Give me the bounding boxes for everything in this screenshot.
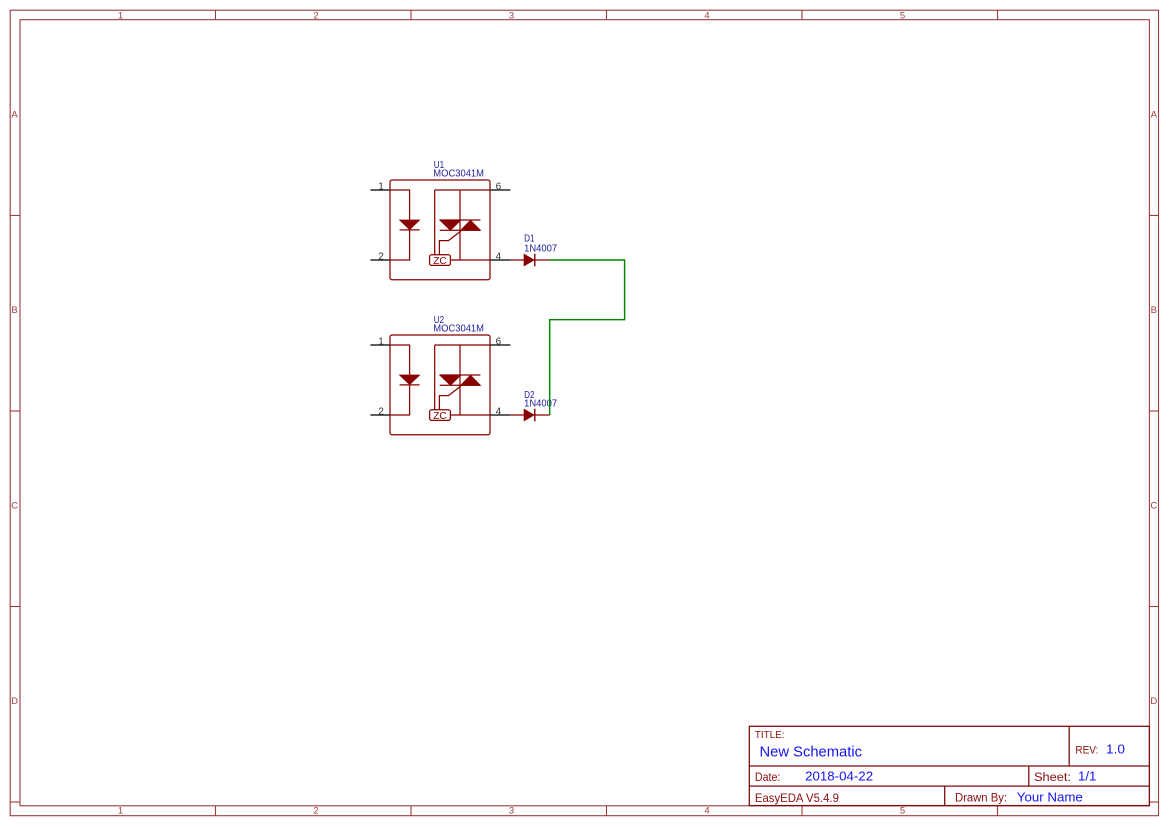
U1 triac bottom rail: [440, 229, 481, 231]
U2 gate wire: [439, 386, 461, 410]
svg-text:5: 5: [900, 10, 905, 21]
svg-text:2: 2: [313, 805, 318, 816]
U2 triac right vertical: [459, 345, 461, 415]
svg-text:2: 2: [313, 10, 318, 21]
svg-text:New Schematic: New Schematic: [760, 744, 863, 761]
U1 triac top rail: [440, 219, 481, 221]
diode D2 triangle: [524, 409, 534, 421]
svg-text:1: 1: [118, 805, 123, 816]
svg-text:3: 3: [509, 805, 514, 816]
svg-text:C: C: [11, 501, 18, 512]
svg-text:REV:: REV:: [1075, 745, 1098, 757]
svg-text:4: 4: [496, 252, 502, 263]
U2 pin4 internal wire: [450, 414, 490, 416]
U2 pin 4 stub: [490, 414, 510, 416]
svg-text:B: B: [1151, 305, 1157, 316]
diode D1 triangle: [524, 254, 534, 266]
svg-text:EasyEDA V5.4.9: EasyEDA V5.4.9: [755, 792, 839, 805]
svg-text:1N4007: 1N4007: [524, 244, 557, 255]
U1 LED anode wire: [390, 190, 410, 220]
svg-text:1: 1: [378, 337, 384, 348]
svg-text:3: 3: [509, 10, 514, 21]
svg-text:A: A: [1151, 109, 1158, 120]
U2 pin6 internal wire: [435, 344, 490, 346]
svg-text:MOC3041M: MOC3041M: [433, 324, 484, 335]
U2 pin 6 stub: [490, 344, 510, 346]
svg-text:2018-04-22: 2018-04-22: [805, 770, 873, 784]
wire net D1-D2: [550, 260, 625, 415]
svg-text:1: 1: [378, 182, 384, 193]
svg-text:A: A: [11, 109, 18, 120]
U2 LED cathode bar: [400, 384, 420, 386]
svg-text:1.0: 1.0: [1106, 743, 1125, 757]
svg-text:1: 1: [118, 10, 123, 21]
U2 triac top rail: [440, 374, 481, 376]
U1 pin6 internal wire: [435, 189, 490, 191]
svg-text:MOC3041M: MOC3041M: [433, 169, 484, 180]
svg-text:2: 2: [378, 407, 384, 418]
title block border: [749, 726, 1149, 805]
U1 triac right vertical: [459, 190, 461, 260]
U2 LED anode wire: [390, 345, 410, 375]
svg-text:Drawn By:: Drawn By:: [955, 793, 1007, 805]
svg-text:Sheet:: Sheet:: [1034, 772, 1071, 784]
optocoupler body U1: [390, 180, 490, 280]
title block Sheet divider: [1028, 766, 1030, 786]
diode D2 cathode bar: [534, 409, 536, 422]
diode D2 anode lead: [510, 414, 524, 416]
svg-text:C: C: [1150, 501, 1157, 512]
U2 pin 1 stub: [370, 344, 390, 346]
U2 ZC box: [430, 410, 451, 421]
U1 triac left vertical: [434, 190, 436, 255]
svg-text:D: D: [11, 696, 18, 707]
svg-text:6: 6: [496, 337, 502, 348]
diode D2 cathode lead: [535, 414, 550, 416]
diode D1 cathode lead: [535, 259, 550, 261]
U2 LED cathode wire: [390, 385, 410, 415]
svg-text:4: 4: [704, 805, 709, 816]
U2 triac right triangle: [461, 375, 481, 385]
U2 pin 2 stub: [370, 414, 390, 416]
svg-text:B: B: [11, 305, 17, 316]
svg-text:2: 2: [378, 252, 384, 263]
U1 LED cathode wire: [390, 230, 410, 260]
title block row line 2: [749, 785, 1149, 787]
svg-text:6: 6: [496, 182, 502, 193]
svg-text:Your Name: Your Name: [1017, 790, 1083, 805]
U1 pin4 internal wire: [450, 259, 490, 261]
U1 gate wire: [439, 231, 461, 255]
U1 triac right triangle: [461, 220, 481, 230]
svg-text:4: 4: [496, 407, 502, 418]
U1 pin 6 stub: [490, 189, 510, 191]
frame column/row tick marks: [215, 10, 217, 20]
svg-text:D: D: [1150, 696, 1157, 707]
svg-text:1N4007: 1N4007: [524, 398, 557, 409]
optocoupler body U2: [390, 335, 490, 435]
svg-text:1/1: 1/1: [1078, 770, 1096, 784]
U2 triac bottom rail: [440, 384, 481, 386]
U2 triac left triangle: [440, 375, 461, 385]
svg-text:TITLE:: TITLE:: [755, 730, 785, 741]
diode D1 anode lead: [510, 259, 524, 261]
title block row line 1: [749, 765, 1149, 767]
svg-text:ZC: ZC: [433, 411, 447, 422]
svg-text:ZC: ZC: [433, 256, 447, 267]
diode D1 cathode bar: [534, 254, 536, 267]
U1 pin 1 stub: [370, 189, 390, 191]
U1 LED triangle: [400, 220, 420, 230]
U2 triac left vertical: [434, 345, 436, 410]
U1 ZC box: [430, 255, 451, 266]
title block DrawnBy divider: [944, 786, 946, 806]
U1 triac left triangle: [440, 220, 461, 230]
U2 LED triangle: [400, 375, 420, 385]
svg-text:4: 4: [704, 10, 709, 21]
title block REV divider: [1068, 726, 1070, 766]
svg-text:Date:: Date:: [755, 772, 781, 784]
U1 pin 2 stub: [370, 259, 390, 261]
U1 LED cathode bar: [400, 229, 420, 231]
svg-text:5: 5: [900, 805, 905, 816]
U1 pin 4 stub: [490, 259, 510, 261]
